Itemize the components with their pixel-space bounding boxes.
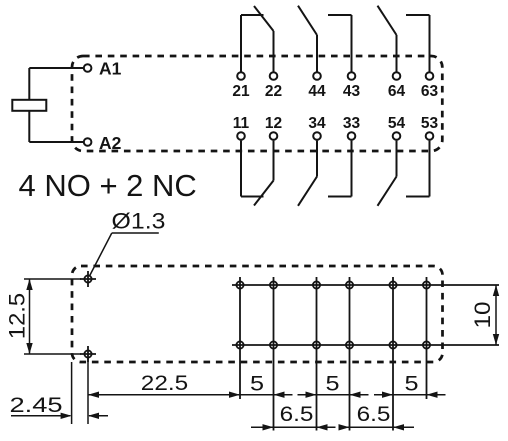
svg-text:63: 63 — [421, 83, 439, 100]
svg-text:5: 5 — [250, 371, 264, 395]
contact NO 54-53 : fixed contact from 53 — [406, 196, 430, 198]
contact NC 11-12 : fixed contact from 11 — [241, 196, 264, 198]
dim 5a line — [240, 394, 274, 396]
dim 2.45 ext left — [71, 362, 73, 424]
column line 3 — [316, 277, 318, 431]
contact holes row line top — [232, 284, 499, 286]
column line 5 — [392, 277, 394, 431]
dimensions — [11, 233, 496, 427]
svg-text:11: 11 — [233, 115, 250, 132]
contact NO 54-53 : stub 53 — [429, 141, 431, 197]
terminal 63 — [426, 72, 434, 80]
terminal 12 — [270, 132, 278, 140]
wire A1 horizontal — [29, 67, 83, 69]
contact NC 11-12 : stub 11 — [240, 141, 242, 197]
svg-text:5: 5 — [325, 371, 339, 395]
svg-text:2.45: 2.45 — [9, 394, 62, 417]
arrow 6.5a right — [317, 424, 328, 430]
coil hole bottom circle — [84, 350, 91, 357]
terminal 54 — [393, 132, 401, 140]
dia leader line — [90, 233, 112, 276]
dim 12.5 ext bottom — [24, 353, 81, 355]
hole c5r2 — [389, 341, 396, 348]
dim 12.5 line — [29, 279, 31, 354]
coil hole top circle — [84, 275, 91, 282]
arrow 5b right — [350, 392, 361, 398]
svg-text:33: 33 — [343, 115, 361, 132]
hole c3r1 — [313, 281, 320, 288]
arrow 22.5 right — [229, 392, 240, 398]
contact NO 44-43 : fixed contact from 43 — [328, 14, 352, 16]
contact hole circles row top — [236, 281, 430, 348]
dim 6.5b line — [339, 426, 415, 428]
contact NO 44-43 : stub 44 — [316, 35, 318, 72]
terminal 34 — [313, 132, 321, 140]
coil K — [12, 100, 46, 111]
arrow 5a right — [274, 392, 285, 398]
svg-text:53: 53 — [421, 115, 439, 132]
hole c2r2 — [270, 341, 277, 348]
contact NO 64-63 : stub 64 — [396, 35, 398, 72]
contact NO 44-43 : stub 43 — [351, 15, 353, 72]
svg-text:6.5: 6.5 — [280, 401, 314, 425]
svg-text:43: 43 — [343, 83, 361, 100]
hole c6r1 — [423, 281, 430, 288]
contact NO 54-53 : stub 54 — [396, 141, 398, 177]
terminal 33 — [348, 132, 356, 140]
contact NO 64-63 : fixed contact from 63 — [406, 14, 430, 16]
arrow 6.5b left — [339, 424, 350, 430]
arrow 6.5b right — [393, 424, 404, 430]
hole c1r2 — [236, 341, 243, 348]
wire coil vertical bottom — [28, 111, 30, 142]
hole c2r1 — [270, 281, 277, 288]
dim 5a tail right — [274, 394, 293, 396]
svg-text:12.5: 12.5 — [4, 293, 29, 339]
column line 6 — [426, 277, 428, 399]
dia leader underline — [112, 232, 159, 234]
svg-text:4 NO + 2 NC: 4 NO + 2 NC — [19, 168, 197, 203]
dim 5c line — [374, 394, 446, 396]
column line 4 — [349, 277, 351, 431]
column line 2 — [273, 277, 275, 431]
terminal A2 — [84, 138, 92, 146]
contact NO 34-33 : blade from 34 — [298, 177, 317, 206]
column line 1 — [239, 277, 241, 399]
arrowheads — [26, 279, 499, 431]
contact NC 11-12 : stub 12 — [273, 141, 275, 181]
footprint outline dashed box — [72, 266, 443, 362]
dim 12.5 ext top — [24, 278, 81, 280]
contact NO 34-33 : stub 33 — [351, 141, 353, 197]
contact NO 34-33 : stub 34 — [316, 141, 318, 177]
arrow 12.5 down — [26, 343, 32, 354]
svg-text:Ø1.3: Ø1.3 — [112, 209, 166, 233]
contact holes row line bottom — [232, 344, 499, 346]
dim 6.5a line — [251, 426, 336, 428]
terminal 11 — [237, 132, 245, 140]
contact NO 34-33 : fixed contact from 33 — [328, 196, 352, 198]
dimension texts — [4, 209, 494, 426]
arrow 22.5 left — [88, 392, 99, 398]
contact NO 54-53 : blade from 54 — [378, 177, 397, 206]
svg-text:22.5: 22.5 — [141, 371, 188, 395]
dim 2.45 ext right / coil column — [87, 358, 89, 424]
arrow 2.45 right — [88, 413, 99, 419]
wire A2 horizontal — [29, 141, 83, 143]
dim 2.45 line right tail — [89, 415, 108, 417]
arrow 10 up — [493, 285, 499, 296]
svg-text:12: 12 — [265, 115, 282, 132]
svg-text:54: 54 — [388, 115, 406, 132]
arrow 6.5a left — [263, 424, 274, 430]
contact NC 21-22 : stub 21 — [240, 15, 242, 72]
arrow 12.5 up — [26, 279, 32, 290]
contact NC 21-22 : stub 22 — [273, 31, 275, 72]
arrow 5c right — [427, 392, 438, 398]
arrow 10 down — [493, 334, 499, 345]
contact NO 64-63 : blade from 64 — [378, 6, 397, 35]
arrow 2.45 left — [61, 413, 72, 419]
svg-text:21: 21 — [232, 83, 250, 100]
terminal 43 — [348, 72, 356, 80]
hole c6r2 — [423, 341, 430, 348]
svg-text:44: 44 — [308, 83, 326, 100]
svg-text:10: 10 — [470, 301, 495, 328]
hole c1r1 — [236, 281, 243, 288]
svg-text:A1: A1 — [99, 59, 122, 79]
contact NO 44-43 : blade from 44 — [298, 6, 317, 35]
svg-text:64: 64 — [388, 83, 406, 100]
dim 5b line — [298, 394, 369, 396]
svg-text:A2: A2 — [99, 133, 122, 153]
contact NC 11-12 : blade to 12 — [254, 181, 274, 206]
coil hole bottom cross — [80, 346, 96, 362]
dim 2.45 line left tail — [11, 415, 70, 417]
relay boundary dashed box — [72, 56, 442, 151]
svg-text:34: 34 — [308, 115, 326, 132]
hole c4r1 — [346, 281, 353, 288]
wire coil vertical top — [28, 68, 30, 100]
arrow 5c left — [382, 392, 393, 398]
terminal 22 — [270, 72, 278, 80]
terminal 64 — [393, 72, 401, 80]
svg-text:6.5: 6.5 — [357, 401, 391, 425]
hole c5r1 — [389, 281, 396, 288]
contact NO 64-63 : stub 63 — [429, 15, 431, 72]
coil hole top cross — [80, 271, 96, 287]
dim 10 line — [495, 285, 497, 345]
dim 22.5 line — [88, 394, 240, 396]
terminal 21 — [237, 72, 245, 80]
labels schematic — [99, 59, 438, 154]
hole c4r2 — [346, 341, 353, 348]
svg-text:5: 5 — [404, 371, 418, 395]
svg-text:22: 22 — [265, 83, 282, 100]
contact NC 21-22 : blade to 22 — [254, 6, 274, 31]
terminal A1 — [84, 64, 92, 72]
terminal 53 — [426, 132, 434, 140]
contact NC 21-22 : fixed contact from 21 — [241, 14, 264, 16]
arrow 5b left — [306, 392, 317, 398]
terminal 44 — [313, 72, 321, 80]
hole c3r2 — [313, 341, 320, 348]
